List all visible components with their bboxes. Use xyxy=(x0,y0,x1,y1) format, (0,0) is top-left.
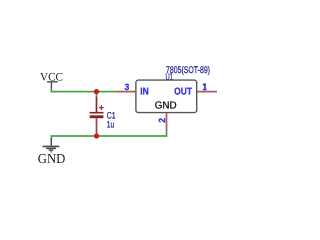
svg-text:1u: 1u xyxy=(107,120,114,130)
capacitor C1 1u xyxy=(90,97,104,134)
wire VCC to IN pin xyxy=(51,90,116,92)
wire cap top stub xyxy=(96,92,98,98)
svg-text:3: 3 xyxy=(125,82,130,92)
pin number 1 xyxy=(203,83,207,90)
pin 3 IN (left) xyxy=(116,91,136,93)
node junction bottom (cap to GND rail) xyxy=(94,133,99,138)
node junction top (cap to VCC wire) xyxy=(94,89,99,94)
svg-text:2: 2 xyxy=(157,118,167,123)
svg-text:IN: IN xyxy=(140,86,148,97)
svg-text:GND: GND xyxy=(38,151,66,166)
pin 2 GND (bottom) xyxy=(166,113,168,131)
ground symbol xyxy=(43,138,60,152)
IC U1 7805 body xyxy=(136,80,197,113)
pin 1 OUT (right) xyxy=(197,91,217,93)
wire GND rail xyxy=(51,130,166,139)
svg-text:GND: GND xyxy=(155,101,177,112)
svg-text:U1: U1 xyxy=(166,72,174,83)
svg-text:OUT: OUT xyxy=(174,86,192,97)
power symbol VCC xyxy=(47,82,58,90)
